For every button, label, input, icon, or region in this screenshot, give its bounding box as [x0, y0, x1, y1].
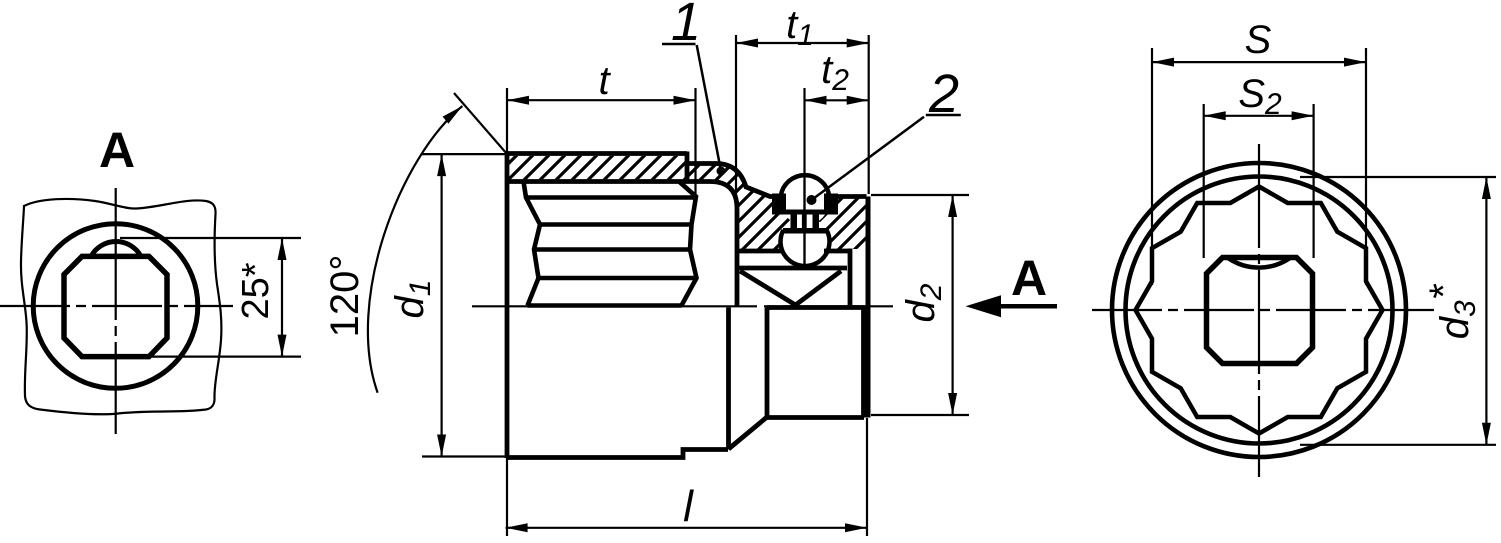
bottom half: cone start edge: [726, 308, 731, 450]
bottom half: big cylinder bottom + step: [507, 450, 728, 458]
outer circle: [1112, 163, 1406, 457]
ball seen through square hole: [1228, 258, 1290, 268]
svg-text:1: 1: [671, 0, 701, 52]
ball axis thin line: [803, 88, 805, 270]
svg-text:t: t: [598, 59, 611, 103]
label 1 with underline and leader: [662, 43, 696, 46]
square hole top wall (line A): [737, 249, 850, 254]
inner corner radius + inner wall: [710, 182, 737, 307]
horizontal centerline: [1092, 309, 1434, 311]
step + corner radius + slope to collar: [687, 164, 867, 197]
outer circle (d2 face): [33, 224, 198, 389]
view direction arrow A: [999, 304, 1057, 309]
lower sphere seat circle (visible lower arc): [781, 230, 830, 266]
hatching: top wall strip: [509, 156, 685, 179]
t1 dimension: [736, 35, 869, 200]
d3 dimension: [1300, 177, 1496, 445]
chamfer circle: [1126, 177, 1393, 444]
l dimension: [866, 418, 868, 536]
face line thin extensions (t and l): [506, 88, 508, 536]
horizontal centerline: [472, 305, 893, 307]
t dimension: [694, 88, 696, 196]
S dimension: [1152, 48, 1366, 285]
120 degree dimension: [454, 93, 507, 154]
square drive hole (chamfered square): [64, 256, 167, 356]
d2 dimension: [871, 195, 969, 415]
bottom half: square hole inner edge on axis: [767, 305, 866, 310]
spring center bar: [802, 215, 807, 229]
ball (item 2), visible upper arc: [780, 175, 829, 213]
vertical centerline: [115, 188, 117, 434]
12-point profile zigzag: right wavy line: [679, 182, 697, 306]
d1 dimension: [422, 154, 507, 456]
ball hole white carve: [781, 217, 830, 266]
break-line blob (wavy square): [21, 199, 221, 414]
S2 dimension: [1204, 104, 1314, 258]
bottom half: d2 cylinder bottom: [767, 415, 864, 420]
V-groove top line (line B): [739, 266, 848, 271]
12-point profile zigzag: left wavy line: [524, 182, 541, 306]
washer tabs and band (blackened thin section): [772, 194, 838, 215]
svg-text:2: 2: [928, 64, 959, 124]
vertical centerline: [1258, 144, 1260, 477]
face line (left end), thick part: [505, 152, 510, 459]
label 2 with underline and leader: [926, 114, 961, 117]
hatching: corner band + left collar: [687, 164, 790, 250]
svg-text:A: A: [99, 122, 135, 178]
V-groove (cone): [740, 271, 841, 305]
t2 dimension: [805, 99, 869, 101]
horizontal centerline: [0, 305, 233, 307]
hatching: right collar: [819, 197, 868, 250]
bottom half: cone end edge: [765, 308, 770, 418]
right face: [866, 197, 871, 418]
12-point profile: [1136, 187, 1383, 434]
svg-text:l: l: [683, 482, 694, 531]
bottom half: cone slope: [729, 417, 768, 449]
spring side bars: [791, 215, 798, 229]
re-draw ball axis over: [803, 180, 805, 268]
svg-text:S: S: [1245, 18, 1272, 62]
dimension 25*: extension lines: [120, 238, 301, 357]
square hole right wall: [848, 249, 853, 307]
12-point profile zigzag: horizontal edges: [526, 198, 697, 306]
ball detent arc: [91, 242, 140, 256]
spring lower band: [783, 228, 827, 234]
svg-text:120°: 120°: [323, 255, 367, 338]
top wall strip outline: [507, 152, 710, 182]
square drive hole: [1207, 258, 1313, 364]
svg-text:25*: 25*: [235, 262, 277, 319]
bottom half: right inner edge: [861, 308, 866, 418]
svg-text:A: A: [1011, 250, 1047, 306]
dimension 25*: dimension line with arrows: [281, 238, 283, 357]
